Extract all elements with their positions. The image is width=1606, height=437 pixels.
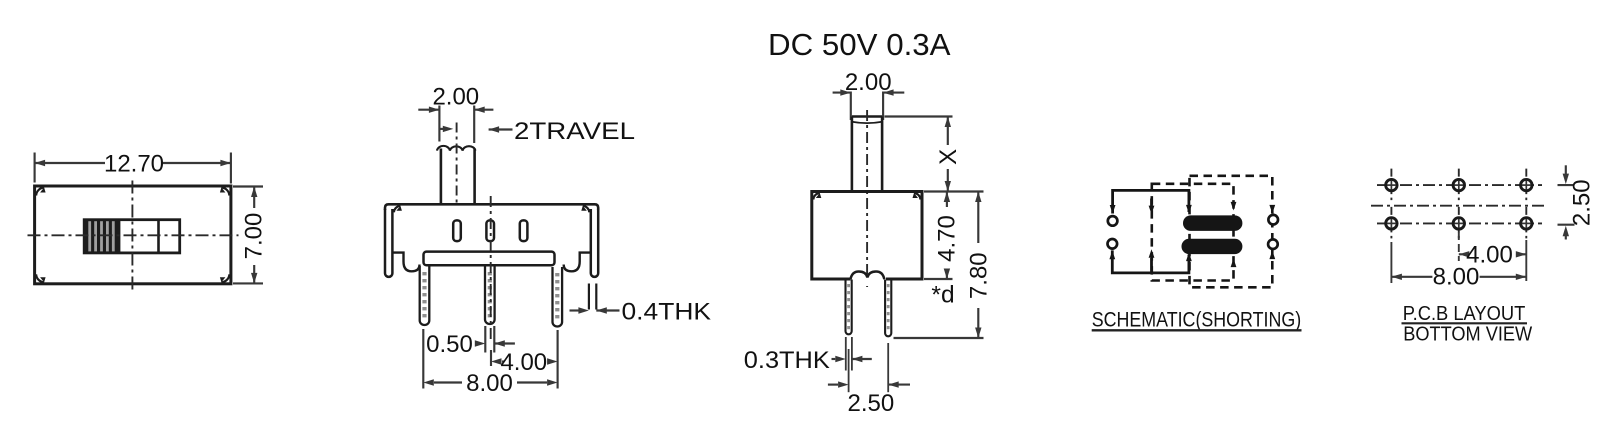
svg-text:2.50: 2.50 (848, 390, 895, 417)
svg-text:0.4THK: 0.4THK (622, 298, 712, 325)
svg-text:4.70: 4.70 (934, 215, 961, 262)
svg-text:7.00: 7.00 (241, 213, 268, 260)
svg-text:P.C.B LAYOUT: P.C.B LAYOUT (1403, 303, 1526, 325)
svg-text:X: X (935, 149, 962, 165)
svg-text:7.80: 7.80 (965, 252, 992, 299)
svg-text:4.00: 4.00 (500, 349, 547, 376)
svg-text:8.00: 8.00 (1433, 264, 1480, 291)
svg-text:SCHEMATIC(SHORTING): SCHEMATIC(SHORTING) (1092, 308, 1302, 332)
svg-text:2TRAVEL: 2TRAVEL (514, 118, 635, 145)
svg-text:BOTTOM VIEW: BOTTOM VIEW (1403, 323, 1532, 345)
svg-text:0.50: 0.50 (426, 331, 473, 358)
svg-text:*d: *d (931, 282, 954, 309)
svg-text:12.70: 12.70 (104, 151, 164, 178)
svg-text:2.50: 2.50 (1569, 179, 1596, 226)
svg-text:0.3THK: 0.3THK (744, 347, 831, 374)
svg-text:DC 50V 0.3A: DC 50V 0.3A (768, 27, 951, 62)
